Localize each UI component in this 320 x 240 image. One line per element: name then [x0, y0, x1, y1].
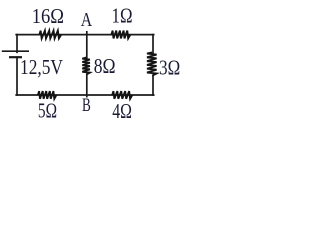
- svg-text:3Ω: 3Ω: [159, 56, 180, 80]
- svg-text:B: B: [82, 95, 91, 116]
- svg-text:12,5V: 12,5V: [20, 55, 63, 79]
- svg-text:4Ω: 4Ω: [112, 99, 132, 123]
- svg-text:A: A: [81, 9, 93, 31]
- svg-text:5Ω: 5Ω: [38, 99, 57, 123]
- svg-text:16Ω: 16Ω: [32, 4, 64, 28]
- svg-text:1Ω: 1Ω: [112, 4, 133, 28]
- svg-text:8Ω: 8Ω: [94, 54, 116, 78]
